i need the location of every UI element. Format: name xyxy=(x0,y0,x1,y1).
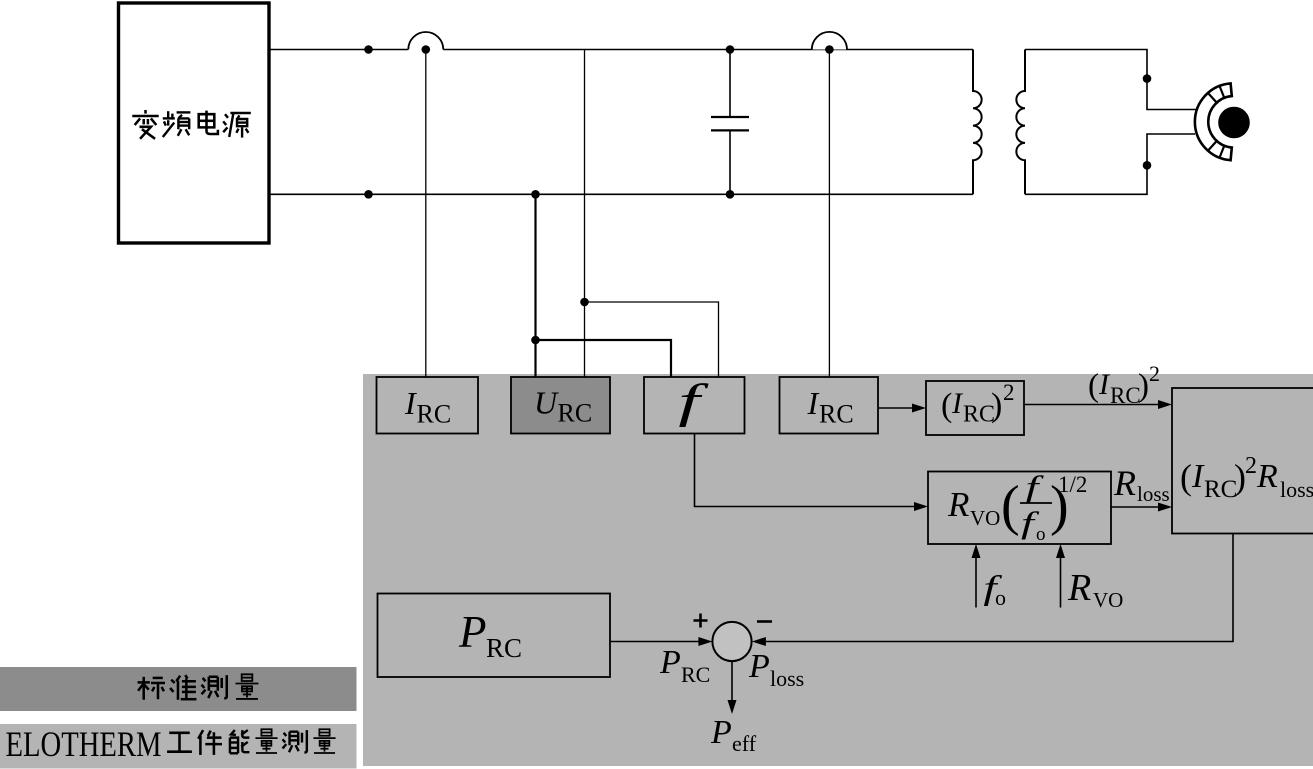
svg-text:2: 2 xyxy=(1245,453,1257,479)
svg-text:o: o xyxy=(1036,524,1046,545)
arrow f_o input xyxy=(975,556,977,608)
wire top rail xyxy=(269,49,973,51)
svg-text:2: 2 xyxy=(1149,361,1160,386)
wire U_RC tap thick (from bottom rail) xyxy=(534,194,536,377)
label 标准测量 xyxy=(138,674,259,699)
current transformer CT2 arc xyxy=(812,32,847,50)
label 变频电源 xyxy=(132,110,251,139)
wire hook A to f block xyxy=(536,340,672,377)
svg-text:RC: RC xyxy=(1204,476,1237,503)
label f_o xyxy=(983,569,1003,607)
svg-text:RC: RC xyxy=(819,400,854,429)
legend bar standard measurement xyxy=(0,667,357,711)
svg-text:R: R xyxy=(1067,567,1091,609)
svg-text:ELOTHERM: ELOTHERM xyxy=(6,724,162,764)
junction dot capacitor top xyxy=(726,45,735,54)
block U_RC xyxy=(511,377,610,434)
svg-text:P: P xyxy=(748,648,770,685)
svg-text:): ) xyxy=(1138,368,1149,404)
svg-text:1/2: 1/2 xyxy=(1058,472,1087,497)
junction dot CT2 xyxy=(825,45,834,54)
arrow P_eff output xyxy=(731,661,733,702)
legend bar ELOTHERM measurement xyxy=(0,724,357,769)
svg-text:(: ( xyxy=(1180,457,1192,497)
svg-text:o: o xyxy=(995,585,1006,610)
svg-text:R: R xyxy=(947,485,969,524)
plus sign xyxy=(694,614,708,628)
block I_RC (1) xyxy=(377,377,479,434)
wire big block down to summing junction xyxy=(764,534,1233,642)
junction dot top rail left xyxy=(364,45,373,54)
label 工件能量测量 xyxy=(167,729,335,755)
power source box xyxy=(119,3,270,243)
svg-text:RC: RC xyxy=(1110,383,1141,408)
junction dot hook A xyxy=(531,336,540,345)
wire bottom rail xyxy=(269,193,973,195)
arrow R_VO input xyxy=(1060,556,1062,608)
svg-text:(: ( xyxy=(1088,368,1099,404)
svg-text:RC: RC xyxy=(417,400,452,429)
wire U_RC tap thin (from top rail) xyxy=(584,50,586,378)
wire secondary loop top xyxy=(1025,50,1197,110)
svg-text:(: ( xyxy=(1001,475,1020,537)
arrow I_RC2 to (I_RC)^2 xyxy=(878,407,914,409)
svg-text:I: I xyxy=(807,385,820,421)
induction heating coil xyxy=(1195,83,1232,160)
svg-text:P: P xyxy=(710,714,732,751)
block (I_RC)^2 xyxy=(926,381,1024,435)
svg-text:I: I xyxy=(1191,458,1205,495)
svg-text:P: P xyxy=(659,644,681,681)
wire CT2 tap xyxy=(828,50,830,378)
junction dot hook B xyxy=(580,298,589,307)
arrow P_RC to summing junction xyxy=(610,641,700,643)
svg-text:I: I xyxy=(404,385,417,421)
svg-text:loss: loss xyxy=(1137,482,1170,506)
junction dot CT1 xyxy=(422,45,431,54)
wire CT1 tap xyxy=(425,50,427,378)
arrow R_VO to big block xyxy=(1111,506,1160,508)
wire secondary loop bottom xyxy=(1025,134,1195,194)
svg-text:VO: VO xyxy=(970,506,1000,530)
wire hook B to f block xyxy=(585,302,719,377)
minus sign xyxy=(757,620,772,623)
junction dot bottom rail left xyxy=(364,190,373,199)
svg-text:): ) xyxy=(991,387,1002,424)
block f xyxy=(644,377,745,434)
svg-text:eff: eff xyxy=(732,731,757,756)
svg-text:(: ( xyxy=(941,387,952,424)
transformer T primary winding xyxy=(973,50,982,195)
junction dot capacitor bottom xyxy=(726,190,735,199)
block P_RC xyxy=(378,594,611,678)
capacitor C xyxy=(729,50,731,195)
coil segment ticks xyxy=(1208,86,1224,157)
svg-text:U: U xyxy=(534,385,559,421)
arrow f to R_VO block xyxy=(695,434,917,507)
block (I_RC)^2 R_loss xyxy=(1172,388,1313,534)
svg-text:RC: RC xyxy=(681,662,710,687)
svg-text:RC: RC xyxy=(558,399,593,428)
junction dot secondary top xyxy=(1143,74,1152,83)
arrow (I_RC)^2 to big block xyxy=(1024,404,1160,406)
svg-text:2: 2 xyxy=(1003,380,1015,405)
summing junction xyxy=(712,622,751,661)
current transformer CT1 arc xyxy=(408,32,443,49)
block R_VO (f/fo)^1/2 xyxy=(928,472,1111,545)
junction dot secondary bottom xyxy=(1143,161,1152,170)
measurement region (gray) xyxy=(363,374,1313,766)
svg-text:RC: RC xyxy=(486,633,522,663)
svg-text:P: P xyxy=(458,607,487,657)
workpiece disc xyxy=(1218,107,1250,139)
svg-text:R: R xyxy=(1113,463,1136,503)
junction dot U_RC bottom tap xyxy=(531,190,540,199)
transformer T secondary winding xyxy=(1016,50,1025,195)
block I_RC (2) xyxy=(780,377,879,434)
svg-text:R: R xyxy=(1256,458,1278,495)
svg-text:loss: loss xyxy=(1280,477,1313,502)
svg-text:loss: loss xyxy=(770,666,804,691)
svg-text:VO: VO xyxy=(1093,588,1123,612)
